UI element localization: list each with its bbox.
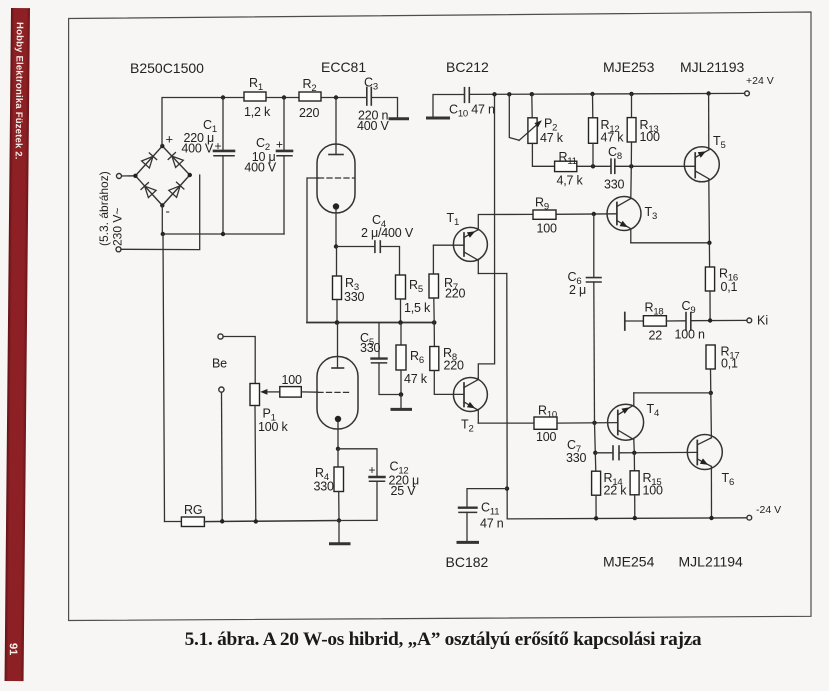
terminal: AC input lower <box>116 247 121 252</box>
node R17 bottom / T4 collector row <box>709 391 713 395</box>
ground (C3) <box>390 117 408 120</box>
svg-text:C9: C9 <box>682 299 696 316</box>
svg-text:BC212: BC212 <box>446 59 489 75</box>
resistor R11 <box>555 161 577 171</box>
capacitor C9 <box>685 313 687 330</box>
schematic border frame <box>69 12 811 621</box>
node bridge right <box>188 173 192 177</box>
node bus / R14 <box>594 516 598 520</box>
resistor 100 (grid stopper) <box>280 387 302 398</box>
ground (C10 left) <box>428 117 449 120</box>
svg-text:+: + <box>215 139 222 153</box>
capacitor C11 <box>467 489 507 507</box>
tube ECC81 triode B envelope <box>317 357 358 430</box>
node bridge bottom (-) <box>160 203 164 207</box>
input tick for R18 branch <box>624 313 626 331</box>
capacitor C7 <box>595 452 612 454</box>
wire: ground stub up to C10 <box>433 95 464 117</box>
svg-text:R6: R6 <box>410 349 424 366</box>
wire: C7 to T6 base <box>619 451 697 453</box>
node Be-lower/ground row <box>220 519 224 523</box>
wire: cathode B lead <box>337 422 339 449</box>
svg-text:0,1: 0,1 <box>721 357 738 371</box>
svg-text:100: 100 <box>643 484 664 498</box>
node T3/T5 emitters <box>707 241 711 245</box>
svg-text:-24 V: -24 V <box>756 504 781 516</box>
svg-text:100: 100 <box>536 430 557 444</box>
svg-text:1,2 k: 1,2 k <box>244 105 271 119</box>
node C5/R6 bottom <box>399 392 404 397</box>
node bus / T6 emitter <box>709 516 713 520</box>
svg-text:T2: T2 <box>461 418 474 435</box>
resistor R6 <box>400 323 402 346</box>
node R10 row / C6 bottom <box>592 421 596 425</box>
svg-text:C10 47 n: C10 47 n <box>449 103 495 120</box>
resistor R4 <box>337 449 339 467</box>
wire: grid A lead down to R3 bottom row <box>307 178 319 323</box>
potentiometer P2 <box>531 94 533 118</box>
wire: to grid B <box>301 391 318 393</box>
svg-text:RG: RG <box>184 503 202 517</box>
svg-text:R1: R1 <box>249 76 263 93</box>
wire: node row under R3/R5 <box>307 322 434 324</box>
wire: R4/C12 bottom row <box>339 519 377 521</box>
cathode B dot <box>335 416 341 422</box>
terminal: AC input upper <box>117 174 122 179</box>
node bus/bridge <box>161 232 165 236</box>
terminal Be lower <box>219 387 224 392</box>
svg-text:MJL21193: MJL21193 <box>680 59 745 75</box>
wire: Be upper to P1 top <box>223 337 255 384</box>
svg-text:4,7 k: 4,7 k <box>557 174 584 188</box>
capacitor C8 <box>610 159 612 173</box>
svg-text:T6: T6 <box>722 471 735 488</box>
diode D1 (lower-left to top) <box>142 153 157 168</box>
svg-text:220: 220 <box>444 359 465 373</box>
svg-text:T5: T5 <box>713 134 726 151</box>
grid B (dashed) <box>318 391 352 393</box>
svg-text:330: 330 <box>314 480 335 494</box>
resistor R7 <box>432 245 434 274</box>
wire: R9 to T3 base <box>556 213 617 216</box>
svg-text:330: 330 <box>360 341 381 355</box>
book spine bar <box>5 8 30 681</box>
transistor T2 <box>453 378 487 412</box>
wire: C4 to R5 <box>381 247 400 276</box>
node R12 bottom <box>591 164 595 168</box>
resistor R15 <box>633 453 635 471</box>
resistor R12 <box>592 94 594 118</box>
node rail/P2 wiper <box>507 92 511 96</box>
svg-text:ECC81: ECC81 <box>321 59 366 75</box>
wire: T2 emitter row to R10 <box>478 422 534 424</box>
node P1/ground row <box>254 519 258 523</box>
svg-text:220: 220 <box>445 287 466 301</box>
resistor R13 <box>631 94 633 118</box>
node rail/V1 <box>492 92 496 96</box>
resistor RG <box>181 517 204 527</box>
diode D4 (bottom to right) <box>169 182 184 197</box>
wire <box>121 175 200 250</box>
capacitor C12 (electrolytic) <box>370 476 385 478</box>
node rail/P2 top <box>530 92 534 96</box>
wire: anode A lead <box>335 98 337 155</box>
wire: C8 to T5 base <box>615 165 695 167</box>
svg-text:R18: R18 <box>645 301 664 318</box>
wire: T1 lower lead to bar <box>477 260 479 273</box>
capacitor C4 <box>374 241 376 252</box>
svg-text:T4: T4 <box>647 402 660 419</box>
node R4 bottom <box>337 518 341 522</box>
wire: ground row <box>204 521 339 522</box>
potentiometer P1 <box>250 384 260 406</box>
svg-text:0,1: 0,1 <box>721 280 738 294</box>
node rail/R12 <box>590 92 594 96</box>
capacitor C1 (electrolytic) <box>222 98 224 151</box>
ground (R4/C12) <box>331 542 350 545</box>
resistor R9 <box>533 210 556 219</box>
wire: T4 collector row <box>634 392 711 394</box>
resistor R18 <box>643 316 666 326</box>
resistor R5 <box>396 275 406 299</box>
capacitor C3 <box>366 88 368 106</box>
wire: stub to ground <box>400 395 402 409</box>
terminal Be upper <box>218 334 223 339</box>
wire: T3 emitter row to T5 emitter column <box>631 242 710 244</box>
transistor T1 <box>453 227 487 261</box>
node V2 / C11 tap <box>505 486 509 490</box>
node bus / R15 <box>633 516 637 520</box>
svg-text:MJE253: MJE253 <box>603 59 655 75</box>
svg-text:MJL21194: MJL21194 <box>679 554 744 570</box>
diode D3 (bottom to left) <box>141 183 156 198</box>
svg-text:330: 330 <box>566 451 587 465</box>
bridge rectifier B250C1500 diamond <box>135 146 189 205</box>
resistor R17 <box>706 345 715 369</box>
wire: C9 to Ki terminal <box>691 319 747 321</box>
wire: bridge bottom down to ground row <box>163 234 165 522</box>
node cathode B junction <box>336 447 340 451</box>
svg-text:2 μ/400 V: 2 μ/400 V <box>361 226 414 240</box>
svg-text:47 k: 47 k <box>540 131 564 145</box>
capacitor C10 <box>464 88 466 103</box>
node rail/R13 <box>629 92 633 96</box>
terminal +24V <box>745 91 750 96</box>
transistor T4 <box>608 404 644 440</box>
svg-text:T3: T3 <box>645 205 658 222</box>
node R9 row / C6 column <box>592 212 596 216</box>
wire: R11 row to C8 <box>577 165 611 167</box>
transistor T5 <box>684 147 719 182</box>
svg-text:330: 330 <box>604 178 625 192</box>
wire: T1 upper lead to R9 row <box>478 214 533 229</box>
svg-text:47 k: 47 k <box>404 372 428 386</box>
wire: anode B lead from row <box>337 323 339 369</box>
terminal Ki <box>747 318 752 323</box>
node C7 row left <box>593 451 597 455</box>
svg-text:B250C1500: B250C1500 <box>130 60 204 76</box>
capacitor C2 (electrolytic) <box>283 98 285 151</box>
wire: T1 base lead <box>433 244 464 246</box>
svg-text:-: - <box>166 204 170 219</box>
wire: V1 rail drop to T2 collector <box>478 94 494 377</box>
node R7 top row end <box>432 320 437 325</box>
svg-text:22: 22 <box>649 329 663 343</box>
wire: stub to ground <box>338 521 340 543</box>
tube ECC81 triode A envelope <box>317 144 355 213</box>
svg-text:+: + <box>369 463 376 477</box>
node R3 bottom <box>335 320 340 325</box>
capacitor C6 <box>593 214 595 277</box>
resistor R8 <box>433 323 435 347</box>
wire: emitters bar <box>478 273 507 275</box>
capacitor C5 <box>378 323 380 359</box>
transistor T6 <box>687 435 722 470</box>
node C2 top <box>282 95 286 99</box>
wire: cathode row to C4 <box>336 246 375 248</box>
node R5 bottom <box>398 320 403 325</box>
wire: R5 bottom lead <box>400 299 402 323</box>
resistor R10 <box>534 417 557 429</box>
ground (C5/R6) <box>392 408 411 411</box>
ground (C11) <box>458 541 478 544</box>
svg-text:+24 V: +24 V <box>746 75 774 87</box>
wire <box>666 320 685 322</box>
anode A plate <box>329 154 343 156</box>
P1 wiper arrow <box>260 389 267 395</box>
resistor R16 <box>708 243 710 267</box>
node cathode A junction <box>334 244 338 248</box>
grid A (dashed) <box>319 177 355 179</box>
anode B plate <box>332 367 344 369</box>
terminal -24V <box>747 515 752 520</box>
wire: after C3 to ground <box>372 98 398 118</box>
cathode A dot <box>333 203 339 209</box>
svg-text:400 V: 400 V <box>244 161 277 175</box>
resistor R14 <box>594 453 597 471</box>
wire: ground row with RG <box>165 521 182 523</box>
svg-text:47 k: 47 k <box>601 131 625 145</box>
svg-text:400 V: 400 V <box>357 119 390 133</box>
wire <box>625 320 644 322</box>
node T4 emitter / R15 top <box>632 451 636 455</box>
wire: negative bus under bridge <box>162 205 284 234</box>
diode D2 (right to top) <box>168 153 183 168</box>
node bridge left <box>133 174 137 178</box>
node Ki column <box>708 318 712 322</box>
node rail/T5 collector <box>706 91 710 95</box>
wire: cathode A lead <box>335 209 337 247</box>
wire: V2 drop to -24 bus <box>507 274 747 519</box>
transistor T3 <box>607 197 641 231</box>
svg-text:100: 100 <box>282 373 303 387</box>
wire: R10 to T4 base <box>557 422 618 425</box>
node C1 top <box>221 95 225 99</box>
svg-text:+: + <box>276 138 283 152</box>
svg-text:22 k: 22 k <box>604 484 628 498</box>
svg-text:BC182: BC182 <box>446 554 489 570</box>
node R13 bottom / T3 collector <box>629 164 633 168</box>
wire: +24V rail <box>470 93 745 94</box>
svg-text:100 k: 100 k <box>258 420 289 434</box>
svg-text:1,5 k: 1,5 k <box>404 301 431 315</box>
svg-text:400 V: 400 V <box>181 142 214 156</box>
svg-text:100 n: 100 n <box>675 328 706 342</box>
resistor R2 <box>299 92 321 101</box>
svg-text:25 V: 25 V <box>391 484 417 498</box>
svg-text:100: 100 <box>640 130 661 144</box>
wire <box>122 175 136 177</box>
wire: cathode B row to C12 <box>338 449 377 477</box>
svg-text:47 n: 47 n <box>480 517 504 531</box>
svg-text:2 μ: 2 μ <box>569 283 586 297</box>
svg-text:+: + <box>166 132 174 147</box>
resistor R1 <box>244 92 266 101</box>
resistor R3 <box>336 247 338 277</box>
node bridge top (+) <box>160 144 164 148</box>
svg-text:Be: Be <box>212 357 227 371</box>
figure caption <box>0 629 829 651</box>
svg-text:230 V~: 230 V~ <box>111 208 125 246</box>
svg-text:220: 220 <box>299 106 320 120</box>
svg-text:T1: T1 <box>447 211 460 228</box>
wire: Be lower down to ground row <box>221 392 224 521</box>
svg-text:(5.3. ábrához): (5.3. ábrához) <box>97 171 111 246</box>
wire: +DC rail top <box>162 98 367 147</box>
svg-text:Ki: Ki <box>757 314 768 328</box>
svg-text:C11: C11 <box>481 501 499 518</box>
svg-text:R5: R5 <box>409 278 423 295</box>
svg-text:MJE254: MJE254 <box>603 554 655 570</box>
node anode A on rail <box>334 95 338 99</box>
svg-text:100: 100 <box>537 222 558 236</box>
svg-text:330: 330 <box>344 290 365 304</box>
wire: C6 column down to C7 row and R14 <box>594 423 597 453</box>
node bus/C1 <box>221 232 225 236</box>
